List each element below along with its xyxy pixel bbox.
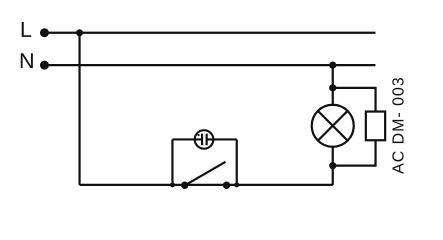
wire neon branch right vertical (236, 139, 238, 184)
wire N line (44, 64, 375, 66)
junction dot lamp top node (329, 84, 336, 91)
label N (21, 53, 33, 68)
module AC DM-003 body (366, 112, 385, 141)
junction dot neon branch left (170, 182, 175, 187)
neon lamp circle (195, 130, 214, 149)
wire L line (44, 32, 375, 34)
neon electrode left (201, 134, 203, 146)
junction dot on L line (76, 29, 83, 36)
lamp E1 cross (318, 111, 348, 141)
wire neon branch top left segment (172, 138, 202, 140)
junction dot lamp bottom node (329, 162, 336, 169)
wire module top branch (333, 88, 376, 112)
switch S1 left contact dot (181, 182, 188, 189)
neon gas dot (197, 134, 199, 136)
neon electrode right (206, 134, 208, 146)
wire lamp bottom riser (332, 147, 334, 185)
junction dot neon branch right (234, 182, 239, 187)
junction dot on N line (329, 62, 336, 69)
wire L drop vertical (78, 33, 80, 185)
wire lamp top riser (332, 65, 334, 105)
wire module bottom branch (333, 140, 376, 165)
label AC DM- 003 (392, 78, 403, 174)
wire neon branch left vertical (171, 139, 173, 184)
lamp E1 circle (312, 105, 354, 147)
label L (22, 22, 32, 37)
switch S1 right contact dot (223, 182, 230, 189)
terminal dot N (40, 61, 49, 70)
terminal dot L (40, 28, 49, 37)
wire neon branch top right segment (207, 138, 237, 140)
wire bottom run (80, 184, 333, 186)
switch S1 blade (185, 162, 226, 186)
